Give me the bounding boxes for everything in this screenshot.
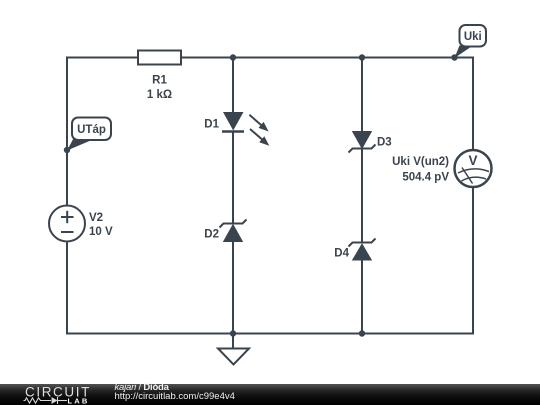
svg-text:V: V [468,153,477,168]
LED D1 arrow 1 [249,115,268,132]
zener diode D4 [334,239,375,261]
wire bottom [66,333,473,335]
svg-text:D2: D2 [204,229,219,241]
resistor R1 [138,51,181,102]
node junction bottom middle [230,330,236,336]
svg-text:V2: V2 [89,212,103,224]
ground [218,334,249,365]
wire middle branch upper [232,58,234,114]
svg-text:LAB: LAB [68,397,90,405]
svg-text:R1: R1 [152,75,167,87]
wire left vertical lower [66,242,68,335]
svg-text:10 V: 10 V [89,226,113,238]
svg-text:504.4 pV: 504.4 pV [402,171,449,183]
zener diode D2 [204,220,246,243]
voltage source V2 [49,206,113,242]
credit text [115,384,235,401]
wire right branch upper [361,58,363,132]
wire top left [67,57,138,59]
node junction top middle [230,54,236,60]
svg-text:D4: D4 [334,247,349,259]
wire voltmeter lower [472,187,474,335]
footer bar [0,384,540,405]
wire right branch between D3 and D4 [361,149,363,243]
node junction bottom right [359,330,365,336]
svg-text:UTáp: UTáp [77,124,106,136]
zener diode D3 [349,131,392,153]
wire middle branch lower [232,242,234,334]
LED D1 arrow 2 [250,129,269,146]
flag UTáp [64,118,111,154]
node junction top right [359,54,365,60]
wire left vertical upper [66,57,68,206]
wire right branch lower [361,261,363,334]
LED D1 [204,112,269,146]
wire voltmeter upper [472,57,474,151]
svg-text:D3: D3 [377,137,392,149]
flag Uki [451,25,486,61]
svg-text:1 kΩ: 1 kΩ [147,89,172,101]
wire top middle [181,57,473,59]
wire middle branch between D1 and D2 [232,132,234,224]
voltmeter U (Uki) [392,150,491,187]
svg-text:Uki V(un2): Uki V(un2) [392,156,449,168]
svg-text:D1: D1 [204,119,219,131]
svg-text:Uki: Uki [464,31,482,43]
CircuitLab logo [18,383,100,405]
